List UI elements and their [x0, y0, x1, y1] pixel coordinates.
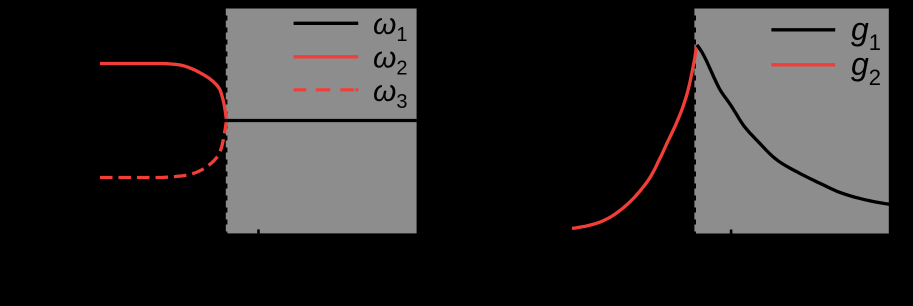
curve g1 (black decaying)	[697, 45, 890, 204]
right panel dashed boundary axvline	[694, 9, 698, 234]
left panel x-axis tick	[257, 229, 260, 233]
left panel shaded region (axvspan)	[227, 9, 416, 234]
curve g2 (red rising)	[572, 45, 697, 229]
legend2 g2 sample line	[771, 63, 835, 66]
right panel x-axis tick	[730, 230, 733, 234]
left panel dashed boundary axvline	[226, 9, 230, 234]
curve omega3 (red dashed branch)	[100, 122, 226, 178]
curve omega1 (black horizontal line)	[224, 119, 417, 122]
curve omega2 (red solid branch)	[100, 64, 226, 119]
legend1 omega2 sample line	[294, 55, 359, 58]
legend2 g1 sample line	[771, 28, 835, 31]
legend1 omega1 sample line	[294, 22, 359, 25]
right panel shaded region (axvspan)	[696, 9, 889, 234]
legend1 omega3 sample dashed line	[294, 88, 359, 91]
